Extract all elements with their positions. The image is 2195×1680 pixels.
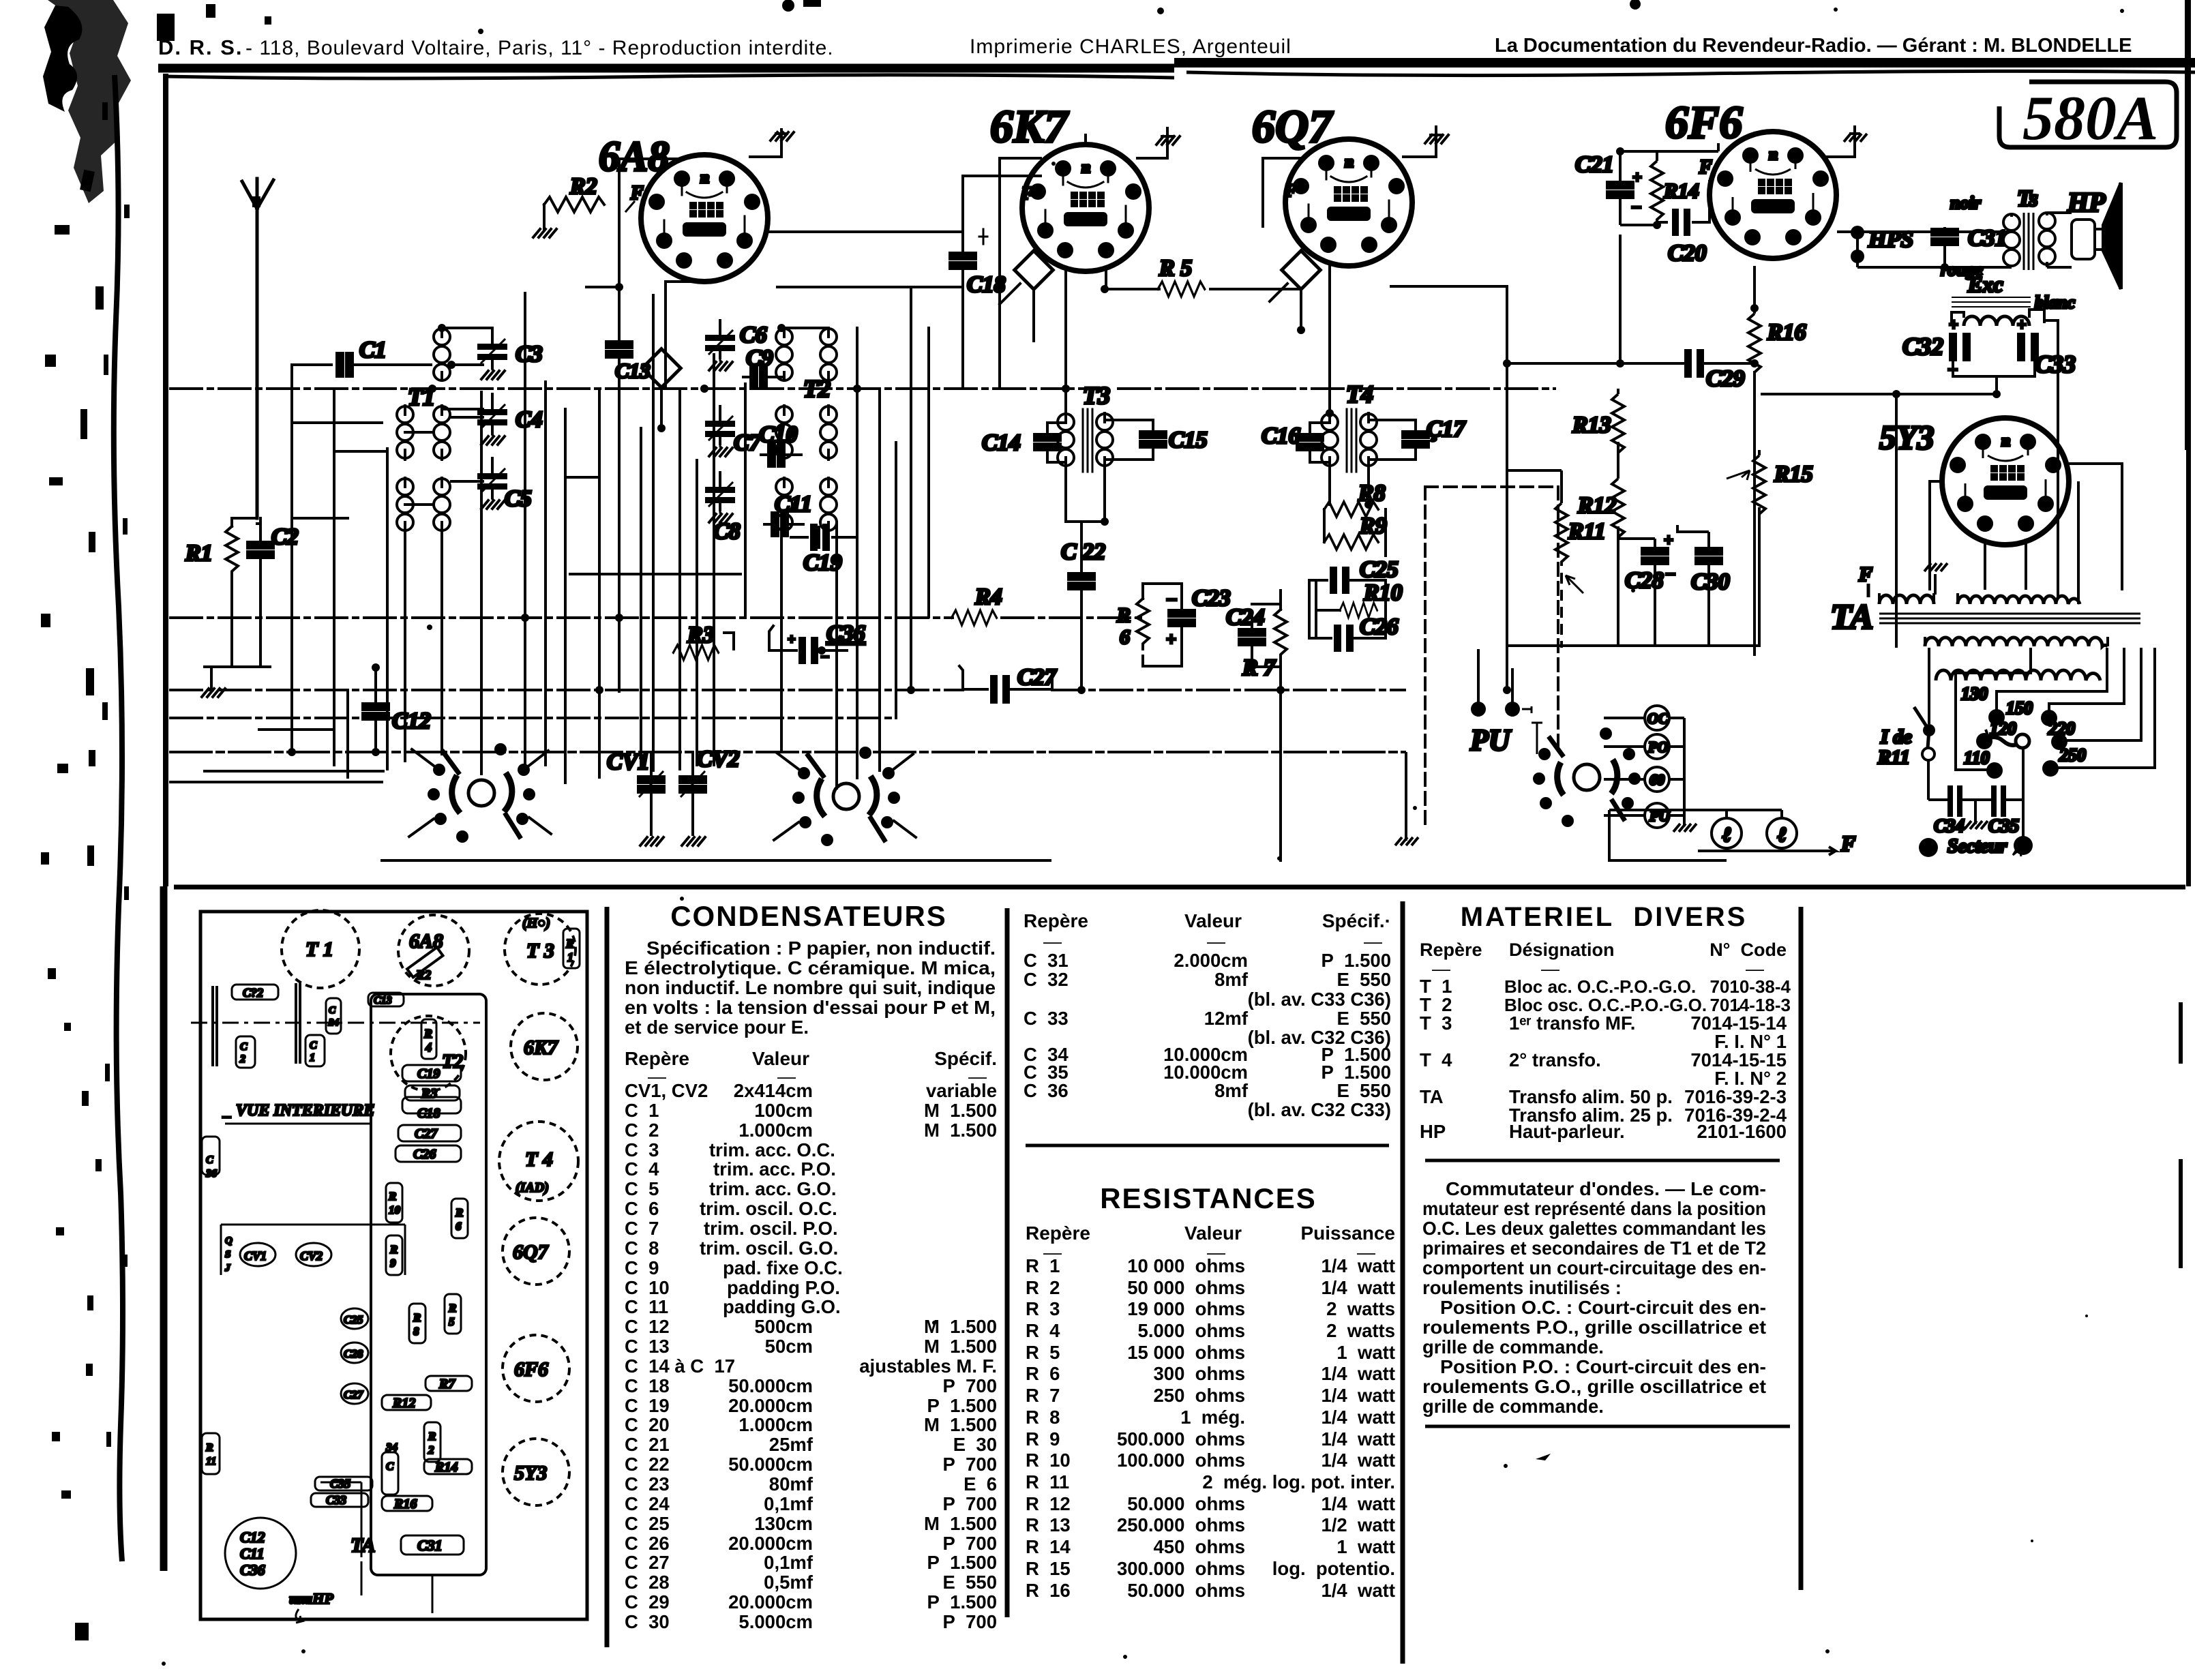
- svg-text:1/4 watt: 1/4 watt: [1321, 1580, 1395, 1601]
- svg-text:trim. oscil. G.O.: trim. oscil. G.O.: [700, 1237, 838, 1259]
- wire horizontals left: [355, 281, 828, 365]
- wire secteur: [1928, 748, 2023, 843]
- svg-text:6A8: 6A8: [599, 134, 669, 180]
- trimmer C7: [705, 406, 762, 456]
- svg-text:RESISTANCES: RESISTANCES: [1100, 1182, 1317, 1214]
- svg-text:C19: C19: [417, 1066, 440, 1081]
- svg-text:R13: R13: [1572, 412, 1611, 438]
- svg-text:R 10: R 10: [1026, 1450, 1071, 1471]
- choke Exc: [1952, 272, 2076, 326]
- svg-text:P 700: P 700: [942, 1533, 997, 1554]
- transformer TA: [1830, 481, 2140, 680]
- trimmer C6: [705, 320, 767, 370]
- capacitor C33: [2017, 316, 2076, 378]
- tube 5Y3: [1879, 418, 2069, 545]
- svg-text:Exc: Exc: [1967, 272, 2003, 297]
- svg-text:C29: C29: [1706, 366, 1745, 391]
- svg-text:1/4 watt: 1/4 watt: [1321, 1428, 1395, 1450]
- svg-text:E 550: E 550: [1337, 1008, 1391, 1029]
- svg-text:_ VUE INTERIEURE: _ VUE INTERIEURE: [222, 1102, 374, 1120]
- svg-text:C9: C9: [746, 346, 773, 371]
- svg-text:8mf: 8mf: [1214, 1080, 1249, 1101]
- svg-text:Haut-parleur.: Haut-parleur.: [1509, 1121, 1625, 1142]
- svg-text:C21: C21: [1575, 152, 1614, 177]
- wire: [405, 328, 492, 505]
- svg-text:- 118, Boulevard Voltaire, Par: - 118, Boulevard Voltaire, Paris, 11° - …: [245, 37, 834, 59]
- svg-text:R10: R10: [1363, 580, 1403, 605]
- svg-text:R 15: R 15: [1026, 1558, 1071, 1579]
- svg-text:Valeur: Valeur: [1184, 1222, 1242, 1244]
- svg-text:trim. acc. O.C.: trim. acc. O.C.: [709, 1139, 835, 1160]
- svg-text:C28: C28: [344, 1347, 363, 1360]
- svg-text:Spécif.·: Spécif.·: [1322, 910, 1391, 931]
- svg-text:P 1.500: P 1.500: [927, 1552, 997, 1573]
- dial PU: [1604, 803, 1684, 828]
- svg-text:P 1.500: P 1.500: [1322, 950, 1391, 971]
- svg-text:R 8: R 8: [1026, 1407, 1060, 1428]
- spec paragraph: [625, 937, 996, 1038]
- svg-text:R: R: [205, 1442, 213, 1454]
- svg-text:PU: PU: [1469, 723, 1512, 757]
- svg-text:C1: C1: [359, 337, 387, 363]
- svg-text:M 1.500: M 1.500: [924, 1100, 997, 1121]
- svg-text:R 5: R 5: [1026, 1342, 1060, 1363]
- svg-text:500.000 ohms: 500.000 ohms: [1117, 1428, 1245, 1450]
- label secteur: [1947, 836, 2022, 857]
- resistor R2: [544, 174, 644, 212]
- capacitor C10: [759, 422, 801, 466]
- svg-text:+: +: [1664, 532, 1673, 550]
- svg-text:Ç17: Ç17: [1427, 417, 1467, 442]
- svg-text:et de service pour E.: et de service pour E.: [625, 1017, 809, 1038]
- svg-text:C 24: C 24: [625, 1493, 670, 1514]
- svg-text:R16: R16: [1767, 320, 1806, 345]
- wire selector risers: [1956, 648, 2155, 770]
- svg-text:E 550: E 550: [1337, 969, 1391, 990]
- svg-text:Spécif.: Spécif.: [934, 1048, 997, 1069]
- svg-text:I de: I de: [1880, 726, 1912, 748]
- svg-text:C32: C32: [1902, 333, 1943, 360]
- trimmer C4: [477, 394, 543, 445]
- ground: [533, 229, 556, 237]
- resistor R9: [1324, 513, 1387, 550]
- svg-text:9: 9: [390, 1257, 396, 1270]
- svg-text:S: S: [225, 1249, 230, 1260]
- svg-text:C33: C33: [326, 1493, 346, 1507]
- svg-text:C 1: C 1: [625, 1100, 659, 1121]
- top rule: [158, 64, 1174, 73]
- svg-text:CONDENSATEURS: CONDENSATEURS: [670, 900, 947, 932]
- column divider 3: [1401, 901, 1405, 1664]
- rule: [1425, 1425, 1790, 1428]
- CV ovals: [221, 1225, 405, 1275]
- svg-text:C 10: C 10: [625, 1277, 670, 1298]
- svg-text:R 3: R 3: [1026, 1298, 1060, 1319]
- svg-text:C25: C25: [1360, 557, 1399, 582]
- svg-text:P 700: P 700: [942, 1611, 997, 1632]
- wire: [1309, 580, 1386, 638]
- svg-text:R: R: [389, 1243, 398, 1256]
- svg-text:C23: C23: [1192, 586, 1231, 611]
- svg-text:20.000cm: 20.000cm: [728, 1591, 813, 1612]
- capacitor C13: [606, 342, 651, 691]
- svg-text:R: R: [388, 1190, 396, 1203]
- svg-text:ℓ: ℓ: [1778, 824, 1787, 846]
- svg-text:20.000cm: 20.000cm: [728, 1533, 813, 1554]
- svg-text:300.000 ohms: 300.000 ohms: [1117, 1558, 1245, 1579]
- svg-text:1/4 watt: 1/4 watt: [1321, 1385, 1395, 1406]
- svg-text:(IAD): (IAD): [516, 1180, 549, 1195]
- bus y1053 dashed: [170, 717, 896, 719]
- svg-text:80mf: 80mf: [769, 1473, 813, 1495]
- svg-text:C 20: C 20: [625, 1414, 670, 1435]
- svg-text:MATERIEL DIVERS: MATERIEL DIVERS: [1461, 902, 1748, 932]
- page left border: [163, 74, 168, 886]
- svg-text:ajustables M. F.: ajustables M. F.: [859, 1355, 997, 1377]
- svg-text:6K7: 6K7: [524, 1036, 558, 1059]
- tube 6Q7: [1252, 100, 1412, 266]
- wire TA stem: [320, 1482, 432, 1613]
- svg-text:C 30: C 30: [625, 1611, 670, 1632]
- svg-text:E électrolytique. C céramique.: E électrolytique. C céramique. M mica,: [625, 957, 996, 978]
- wire switch stubs: [409, 749, 916, 840]
- resistor R15: [1727, 450, 1813, 518]
- svg-text:trim. acc. G.O.: trim. acc. G.O.: [709, 1178, 836, 1199]
- resistor R4: [952, 584, 1002, 625]
- svg-text:–: –: [1632, 198, 1641, 215]
- svg-text:300 ohms: 300 ohms: [1153, 1363, 1245, 1384]
- svg-text:Repère: Repère: [1024, 910, 1088, 931]
- tube 5Y3 circle: [503, 1439, 569, 1505]
- svg-text:T 4: T 4: [525, 1148, 553, 1171]
- svg-text:C 7: C 7: [625, 1218, 659, 1239]
- svg-text:C14: C14: [982, 430, 1021, 455]
- svg-text:1/2 watt: 1/2 watt: [1321, 1514, 1395, 1535]
- capacitor C21: [1575, 151, 1642, 225]
- svg-text:R14: R14: [1663, 179, 1699, 202]
- svg-text:R16: R16: [393, 1497, 417, 1512]
- wire plate 6A8 to C18: [768, 230, 963, 233]
- svg-text:R4: R4: [974, 584, 1002, 610]
- capacitor C28: [1625, 532, 1675, 646]
- chassis outline: [200, 912, 587, 1619]
- svg-text:1/4 watt: 1/4 watt: [1321, 1255, 1395, 1276]
- svg-text:C35: C35: [1988, 815, 2019, 836]
- wire: [1252, 590, 1281, 690]
- svg-text:trim. acc. P.O.: trim. acc. P.O.: [713, 1158, 836, 1180]
- svg-text:24: 24: [328, 1017, 340, 1028]
- svg-text:1/4 watt: 1/4 watt: [1321, 1407, 1395, 1428]
- capacitor C16: [1261, 423, 1323, 462]
- svg-text:Position P.O. : Court-circuit: Position P.O. : Court-circuit des en-: [1440, 1356, 1766, 1377]
- column2 header: [1024, 910, 1391, 931]
- svg-text:M 1.500: M 1.500: [924, 1120, 997, 1141]
- svg-text:20.000cm: 20.000cm: [728, 1395, 813, 1416]
- svg-text:CV1: CV1: [244, 1249, 267, 1263]
- svg-text:C12: C12: [392, 708, 431, 734]
- svg-text:C15: C15: [1169, 427, 1208, 453]
- svg-text:roulements G.O., grille oscill: roulements G.O., grille oscillatrice et: [1422, 1376, 1766, 1397]
- wire 6F6 plate to Ts: [1837, 232, 2012, 267]
- svg-text:R 5: R 5: [1159, 256, 1192, 281]
- svg-text:R1: R1: [185, 541, 213, 566]
- svg-text:OC: OC: [1647, 710, 1669, 727]
- svg-text:4: 4: [425, 1040, 432, 1054]
- svg-text:mutateur est représenté dans l: mutateur est représenté dans la position: [1422, 1198, 1766, 1219]
- wire: [205, 573, 270, 687]
- tube 6A8 circle: [398, 915, 469, 986]
- svg-text:R 2: R 2: [1026, 1277, 1060, 1298]
- svg-text:R: R: [565, 937, 574, 950]
- capacitor C22: [1061, 522, 1105, 690]
- svg-text:R2: R2: [569, 174, 597, 199]
- svg-text:pad. fixe O.C.: pad. fixe O.C.: [723, 1257, 843, 1278]
- svg-text:R 14: R 14: [1026, 1536, 1071, 1557]
- small mark: [1536, 1454, 1551, 1460]
- svg-text:C 25: C 25: [625, 1513, 670, 1534]
- ground: [682, 837, 705, 845]
- svg-text:1 watt: 1 watt: [1337, 1536, 1395, 1557]
- svg-text:R3: R3: [421, 1086, 437, 1101]
- wavy scan line left: [114, 75, 123, 1561]
- svg-text:trim. oscil. O.C.: trim. oscil. O.C.: [700, 1198, 837, 1219]
- trimmer C5: [477, 458, 532, 511]
- svg-text:C 3: C 3: [625, 1139, 659, 1160]
- svg-text:C 22: C 22: [625, 1454, 670, 1475]
- svg-text:CV1, CV2: CV1, CV2: [625, 1080, 708, 1101]
- svg-text:1: 1: [310, 1052, 315, 1064]
- capacitor C20: [1657, 157, 1712, 266]
- svg-text:100cm: 100cm: [754, 1100, 813, 1121]
- svg-text:C 19: C 19: [625, 1395, 670, 1416]
- svg-text:R 7: R 7: [1026, 1385, 1060, 1406]
- svg-text:R 16: R 16: [1026, 1580, 1071, 1601]
- svg-text:C4: C4: [516, 407, 543, 432]
- svg-text:6Q7: 6Q7: [1252, 100, 1334, 152]
- svg-text:C: C: [310, 1040, 317, 1051]
- column divider 4: [1799, 907, 1804, 1590]
- svg-text:1 még.: 1 még.: [1180, 1407, 1245, 1428]
- svg-text:19 000 ohms: 19 000 ohms: [1127, 1298, 1245, 1319]
- svg-text:—: —: [1043, 931, 1062, 952]
- svg-text:C 2: C 2: [625, 1120, 659, 1141]
- wire 6Q7 couplings: [1263, 158, 1507, 690]
- grid cap 6Q7: [1270, 251, 1320, 330]
- svg-text:8mf: 8mf: [1214, 969, 1249, 990]
- svg-text:E 30: E 30: [953, 1434, 997, 1455]
- svg-text:T 1: T 1: [305, 938, 333, 961]
- rule: [1026, 1144, 1389, 1147]
- svg-text:50 000 ohms: 50 000 ohms: [1127, 1277, 1245, 1298]
- svg-text:P 700: P 700: [942, 1493, 997, 1514]
- svg-text:variable: variable: [926, 1080, 997, 1101]
- svg-text:2 még. log. pot. inter.: 2 még. log. pot. inter.: [1202, 1471, 1395, 1492]
- rotary switch S1: [428, 743, 535, 843]
- svg-text:+: +: [1166, 629, 1176, 649]
- svg-text:580A: 580A: [2022, 83, 2158, 153]
- wire 6K7 couplings: [963, 135, 1086, 389]
- wire: [777, 271, 1301, 289]
- antenna: [242, 179, 273, 518]
- svg-text:+: +: [2017, 316, 2027, 334]
- svg-text:C25: C25: [344, 1313, 363, 1326]
- capacitor C35: [1988, 785, 2019, 836]
- tube 6K7 circle: [511, 1013, 578, 1080]
- svg-text:Repère: Repère: [1420, 940, 1482, 960]
- svg-text:Q: Q: [225, 1235, 233, 1246]
- svg-text:130cm: 130cm: [754, 1513, 813, 1534]
- svg-text:roulements P.O., grille oscill: roulements P.O., grille oscillatrice et: [1422, 1317, 1766, 1338]
- wire 5Y3 to filter: [1896, 394, 1896, 648]
- boxes R7 R12 R14 R16: [382, 1376, 472, 1512]
- boxes C35 C33: [311, 1477, 372, 1507]
- svg-text:ɯɯHP: ɯɯHP: [289, 1590, 333, 1607]
- svg-text:P 1.500: P 1.500: [927, 1591, 997, 1612]
- svg-text:E 6: E 6: [964, 1473, 997, 1495]
- svg-text:D. R. S.: D. R. S.: [158, 35, 243, 59]
- svg-text:Désignation: Désignation: [1509, 940, 1615, 960]
- tube 6F6: [1665, 96, 1836, 258]
- wire PU drop: [1478, 649, 1727, 860]
- svg-text:450 ohms: 450 ohms: [1153, 1536, 1245, 1557]
- svg-text:en volts : la tension d'essai: en volts : la tension d'essai pour P et …: [625, 997, 996, 1018]
- svg-text:P 700: P 700: [942, 1375, 997, 1396]
- svg-text:–: –: [1666, 565, 1675, 582]
- wire dial bus: [1683, 718, 1686, 815]
- wire: [544, 159, 682, 339]
- tube T1 circle: [282, 910, 359, 988]
- rule: [1425, 1159, 1780, 1162]
- svg-text:C28: C28: [1625, 568, 1664, 593]
- ground 6A8 top right: [750, 130, 794, 157]
- voltage selector: [1961, 684, 2086, 779]
- resistor R5: [1158, 256, 1205, 297]
- svg-text:R: R: [1116, 604, 1131, 627]
- svg-text:R 6: R 6: [1026, 1363, 1060, 1384]
- svg-text:R: R: [428, 1430, 436, 1443]
- svg-text:C8: C8: [713, 519, 741, 544]
- tube T4 circle: [499, 1122, 578, 1201]
- wire: [232, 518, 260, 524]
- svg-text:1/4 watt: 1/4 watt: [1321, 1450, 1395, 1471]
- svg-text:M 1.500: M 1.500: [924, 1316, 997, 1337]
- svg-text:5Y3: 5Y3: [1879, 418, 1935, 456]
- svg-text:T3: T3: [1083, 382, 1110, 409]
- column divider 2: [1005, 908, 1010, 1617]
- svg-text:R3: R3: [687, 622, 715, 648]
- svg-text:130: 130: [1961, 684, 1988, 704]
- wire Exc caps: [1761, 310, 2058, 597]
- svg-text:6: 6: [1120, 626, 1130, 648]
- svg-text:2 watts: 2 watts: [1326, 1298, 1395, 1319]
- svg-text:C3: C3: [516, 342, 543, 367]
- svg-text:C10: C10: [759, 422, 798, 447]
- svg-text:trim. oscil. P.O.: trim. oscil. P.O.: [704, 1218, 838, 1239]
- svg-text:500cm: 500cm: [754, 1316, 813, 1337]
- svg-text:C: C: [206, 1154, 213, 1166]
- svg-text:+: +: [1632, 169, 1642, 187]
- svg-text:1ᵉʳ transfo MF.: 1ᵉʳ transfo MF.: [1509, 1012, 1635, 1034]
- svg-text:0,1mf: 0,1mf: [764, 1493, 813, 1514]
- svg-text:C 32: C 32: [1024, 969, 1069, 990]
- resistor R6: [1116, 593, 1149, 649]
- tube T3 circle: [505, 914, 580, 985]
- bus y1103: [170, 751, 1405, 753]
- svg-text:7010-38-4: 7010-38-4: [1709, 976, 1791, 997]
- svg-text:C: C: [386, 1460, 394, 1473]
- svg-text:roulements inutilisés :: roulements inutilisés :: [1422, 1277, 1622, 1298]
- svg-text:8: 8: [413, 1325, 419, 1338]
- wire: [1047, 271, 1153, 522]
- svg-text:C26: C26: [413, 1147, 436, 1162]
- svg-text:log. potentio.: log. potentio.: [1272, 1558, 1395, 1579]
- svg-text:10 000 ohms: 10 000 ohms: [1127, 1255, 1245, 1276]
- svg-text:1 watt: 1 watt: [1337, 1342, 1395, 1363]
- svg-text:La Documentation du Revendeur-: La Documentation du Revendeur-Radio. — G…: [1495, 35, 2132, 57]
- svg-text:C 21: C 21: [625, 1434, 670, 1455]
- svg-text:C: C: [329, 1005, 336, 1016]
- svg-text:grille de commande.: grille de commande.: [1422, 1336, 1604, 1357]
- transformer Ts: [1941, 186, 2055, 280]
- svg-text:R11: R11: [1877, 747, 1910, 768]
- svg-text:Puissance: Puissance: [1300, 1222, 1395, 1244]
- svg-text:C 36: C 36: [1024, 1080, 1069, 1101]
- right edge marks: [2185, 0, 2191, 450]
- grid cap 6A8: [642, 349, 681, 428]
- svg-text:C24: C24: [1226, 605, 1265, 630]
- wire vertical drops under 6A8: [599, 282, 929, 788]
- resistor R12: [1577, 473, 1624, 541]
- svg-text:36: 36: [205, 1168, 217, 1180]
- svg-text:C 31: C 31: [1024, 950, 1069, 971]
- svg-text:2101-1600: 2101-1600: [1697, 1121, 1787, 1142]
- svg-text:Commutateur d'ondes. — Le com-: Commutateur d'ondes. — Le com-: [1446, 1178, 1766, 1199]
- svg-text:C31: C31: [1968, 226, 2007, 251]
- svg-text:R: R: [448, 1302, 456, 1315]
- svg-text:R12: R12: [1577, 493, 1617, 518]
- svg-text:5: 5: [449, 1315, 455, 1328]
- wire heater F: [1609, 810, 1855, 856]
- svg-text:2° transfo.: 2° transfo.: [1509, 1049, 1601, 1070]
- svg-text:50.000cm: 50.000cm: [728, 1375, 813, 1396]
- svg-text:J: J: [224, 1263, 230, 1274]
- svg-text:T4: T4: [1346, 380, 1373, 408]
- capacitor C32: [1902, 316, 1971, 378]
- lamp 2: [1767, 810, 1797, 851]
- svg-text:C26: C26: [1360, 614, 1399, 640]
- svg-text:R 13: R 13: [1026, 1514, 1071, 1535]
- lamp 1: [1712, 810, 1742, 851]
- svg-text:Secteur: Secteur: [1947, 836, 2007, 857]
- svg-text:non inductif. Le nombre qui su: non inductif. Le nombre qui suit, indiqu…: [625, 977, 996, 998]
- svg-text:6Q7: 6Q7: [513, 1241, 549, 1263]
- svg-text:C 23: C 23: [625, 1473, 670, 1495]
- bus y1012 dashed: [170, 689, 1405, 691]
- svg-text:C27: C27: [415, 1126, 438, 1141]
- dashed PU box: [1425, 487, 1558, 824]
- svg-text:Imprimerie CHARLES, Argenteuil: Imprimerie CHARLES, Argenteuil: [970, 35, 1291, 58]
- svg-text:C 9: C 9: [625, 1257, 659, 1278]
- capacitor C36: [769, 621, 865, 664]
- svg-text:R 1: R 1: [1026, 1255, 1060, 1276]
- svg-text:1.000cm: 1.000cm: [738, 1120, 813, 1141]
- ground: [202, 689, 225, 697]
- svg-text:R11: R11: [1568, 519, 1606, 544]
- svg-text:C 13: C 13: [625, 1336, 670, 1357]
- svg-text:1/4 watt: 1/4 watt: [1321, 1277, 1395, 1298]
- bus y905 dashed: [170, 616, 1143, 619]
- capacitor CV2: [680, 747, 739, 835]
